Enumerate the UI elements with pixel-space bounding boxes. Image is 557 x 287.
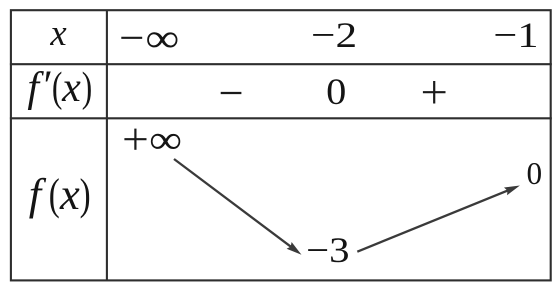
svg-text:): ) [80, 169, 91, 219]
svg-text:−2: −2 [311, 15, 357, 55]
svg-text:x: x [59, 169, 80, 219]
increasing arrow shaft [357, 189, 510, 251]
decreasing arrow head [287, 242, 302, 255]
svg-text:∞: ∞ [149, 117, 182, 162]
svg-text:): ) [82, 65, 93, 111]
increasing arrow head [504, 186, 520, 196]
sign plus (row f') : horizontal bar [423, 91, 446, 93]
svg-text:∞: ∞ [145, 16, 179, 61]
svg-text:−3: −3 [306, 230, 349, 270]
minus sign of -infinity (row x) [121, 37, 142, 39]
decreasing arrow shaft [174, 159, 294, 249]
row separator line 1 [10, 63, 552, 65]
column separator line [106, 10, 108, 280]
svg-text:x: x [61, 65, 81, 111]
plus sign of +infinity (row f) : horizontal bar [124, 138, 146, 140]
sign plus (row f') : vertical bar [433, 81, 435, 104]
row separator line 2 [10, 117, 552, 119]
svg-text:(: ( [52, 65, 63, 111]
sign minus (row f') [221, 92, 242, 94]
svg-text:x: x [49, 12, 67, 53]
svg-text:−1: −1 [494, 15, 539, 55]
svg-text:(: ( [49, 169, 60, 219]
plus sign of +infinity (row f) : vertical bar [134, 129, 136, 150]
svg-text:0: 0 [526, 156, 542, 191]
svg-text:0: 0 [326, 71, 346, 112]
